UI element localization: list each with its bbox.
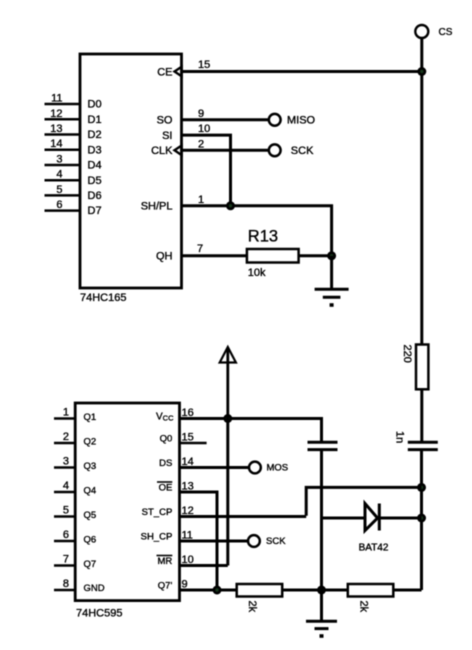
- svg-text:GND: GND: [84, 583, 105, 594]
- pin SH/PL (1): [141, 194, 204, 213]
- pin CLK (2): [151, 138, 204, 157]
- svg-text:Q2: Q2: [84, 437, 97, 448]
- pin SH_CP (11): [141, 530, 248, 543]
- pin VCC (16): [156, 407, 194, 423]
- svg-text:Q6: Q6: [84, 535, 97, 546]
- pin CE (15): [157, 59, 210, 78]
- IC U1 74HC165 body: [80, 54, 182, 304]
- port CS: [415, 25, 452, 38]
- svg-text:1: 1: [198, 194, 204, 206]
- svg-text:Q7': Q7': [158, 581, 173, 592]
- port MISO: [269, 114, 316, 127]
- svg-text:Q3: Q3: [84, 461, 97, 472]
- pin Q7 (7): [54, 554, 96, 571]
- junction SI/SH-PL: [226, 201, 235, 210]
- pin D3 (14): [45, 138, 102, 156]
- arrowhead CLK input: [175, 146, 182, 156]
- pin Q6 (6): [54, 529, 96, 546]
- svg-text:11: 11: [51, 93, 62, 105]
- svg-text:Q7: Q7: [84, 559, 97, 570]
- svg-text:74HC595: 74HC595: [76, 608, 122, 620]
- capacitor (VCC decoupling): [308, 442, 338, 449]
- wire right 2k to right vertical: [393, 589, 421, 592]
- wire VCC to cap: [180, 419, 322, 443]
- svg-text:8: 8: [63, 578, 69, 590]
- svg-text:D2: D2: [88, 129, 102, 141]
- wire ST_CP step to right vertical: [306, 487, 421, 515]
- capacitor 1n: [394, 431, 438, 450]
- pin Q3 (3): [54, 456, 96, 473]
- pin D7 (6): [45, 199, 102, 217]
- svg-text:D1: D1: [88, 114, 102, 126]
- svg-text:5: 5: [56, 184, 62, 196]
- pin ST_CP (12): [142, 505, 307, 518]
- svg-text:1n: 1n: [394, 431, 406, 443]
- svg-text:D5: D5: [88, 175, 102, 187]
- svg-text:7: 7: [197, 243, 203, 255]
- diode BAT42: [322, 504, 422, 554]
- junction VCC arrow: [223, 414, 232, 423]
- svg-text:2: 2: [63, 431, 69, 443]
- svg-text:D3: D3: [88, 144, 102, 156]
- wire down to ground: [330, 256, 333, 289]
- svg-text:MISO: MISO: [287, 115, 316, 127]
- svg-text:9: 9: [198, 108, 204, 120]
- pin Q7' (9): [158, 579, 237, 592]
- svg-text:SO: SO: [157, 115, 173, 127]
- svg-text:15: 15: [198, 59, 210, 71]
- resistor 2k (right): [348, 584, 394, 613]
- svg-text:12: 12: [50, 108, 62, 120]
- wire OE down to Q7': [180, 492, 218, 590]
- pin Q5 (5): [54, 505, 96, 522]
- wire MR to VCC vertical: [180, 419, 228, 566]
- pin QH (7): [156, 243, 203, 263]
- svg-text:QH: QH: [156, 251, 173, 263]
- pin MR (10): [157, 554, 194, 567]
- svg-text:7: 7: [63, 554, 69, 566]
- svg-text:13: 13: [50, 123, 62, 135]
- svg-text:3: 3: [56, 154, 62, 166]
- svg-text:SH_CP: SH_CP: [141, 532, 173, 543]
- pin SO (9): [157, 108, 205, 127]
- wire 220 to cap 1n: [420, 389, 423, 442]
- svg-text:D7: D7: [88, 205, 102, 217]
- svg-text:D6: D6: [88, 190, 102, 202]
- pin Q1 (1): [54, 407, 96, 424]
- pin D2 (13): [45, 123, 102, 141]
- svg-text:D4: D4: [88, 160, 102, 172]
- svg-text:CLK: CLK: [151, 145, 173, 157]
- svg-text:ST_CP: ST_CP: [142, 507, 173, 518]
- resistor 220: [401, 345, 428, 390]
- svg-text:MOS: MOS: [267, 463, 289, 474]
- svg-text:220: 220: [401, 345, 413, 363]
- resistor 2k (left): [237, 584, 283, 613]
- svg-text:5: 5: [63, 505, 69, 517]
- svg-text:SI: SI: [162, 130, 172, 142]
- arrowhead CE input: [175, 67, 182, 77]
- svg-text:Q5: Q5: [84, 510, 97, 521]
- wire CE to CS node: [182, 70, 422, 73]
- junction OE/Q7': [213, 586, 222, 595]
- svg-text:74HC165: 74HC165: [80, 292, 126, 304]
- svg-text:3: 3: [63, 456, 69, 468]
- pin SI (10): [162, 123, 210, 142]
- svg-text:D0: D0: [88, 99, 102, 111]
- junction CS/CE: [417, 67, 426, 76]
- svg-text:SH/PL: SH/PL: [141, 201, 173, 213]
- svg-text:DS: DS: [159, 458, 172, 469]
- svg-text:CS: CS: [439, 27, 453, 38]
- pin Q0 (15): [160, 432, 207, 445]
- port SCK (upper): [269, 144, 314, 157]
- resistor R13 10k: [247, 227, 299, 279]
- svg-text:2k: 2k: [246, 601, 258, 613]
- svg-text:Q1: Q1: [84, 412, 97, 423]
- svg-text:OE: OE: [159, 483, 173, 494]
- pin D1 (12): [45, 108, 102, 126]
- svg-text:10: 10: [198, 123, 210, 135]
- junction diode/vertical: [417, 514, 426, 523]
- supply VCC arrow: [220, 347, 236, 419]
- svg-text:2k: 2k: [357, 601, 369, 613]
- junction R13/SH-PL/ground: [327, 251, 336, 260]
- pin Q4 (4): [54, 480, 96, 497]
- wire left 2k to gnd node: [282, 589, 348, 592]
- svg-text:Q0: Q0: [160, 434, 173, 445]
- svg-text:4: 4: [63, 480, 69, 492]
- IC U2 74HC595 body: [75, 403, 179, 620]
- pin D4 (3): [45, 154, 102, 172]
- ground (bottom section): [306, 621, 337, 638]
- svg-text:BAT42: BAT42: [359, 542, 389, 553]
- wire 1n down: [420, 450, 423, 590]
- svg-text:CE: CE: [157, 66, 172, 78]
- wire R13 to ground node: [299, 254, 332, 257]
- junction GND node: [317, 586, 326, 595]
- pin D5 (4): [45, 169, 102, 187]
- port SCK (lower): [248, 535, 286, 547]
- pin OE (13): [157, 481, 194, 494]
- junction cap/ST_CP link: [417, 483, 426, 492]
- wire SH/PL right and down: [182, 206, 332, 256]
- svg-text:MR: MR: [158, 556, 173, 567]
- pin Q2 (2): [54, 431, 96, 448]
- wire CLK to SCK: [182, 149, 270, 152]
- svg-text:R13: R13: [248, 227, 278, 245]
- pin GND (8): [54, 578, 105, 594]
- ground (top section): [315, 289, 349, 307]
- wire QH to R13: [182, 254, 247, 257]
- svg-text:Q4: Q4: [84, 486, 97, 497]
- svg-text:10k: 10k: [248, 267, 266, 279]
- pin D0 (11): [45, 93, 102, 111]
- wire cap to gnd: [320, 450, 323, 621]
- wire SI down to SH/PL: [182, 135, 231, 206]
- port MOS: [249, 462, 288, 474]
- svg-text:SCK: SCK: [291, 145, 314, 157]
- svg-text:6: 6: [63, 529, 69, 541]
- svg-text:14: 14: [50, 138, 62, 150]
- svg-text:4: 4: [56, 169, 62, 181]
- svg-text:1: 1: [63, 407, 69, 419]
- wire CS down: [420, 38, 423, 345]
- svg-text:VCC: VCC: [156, 412, 174, 423]
- pin DS (14): [159, 456, 249, 469]
- svg-text:SCK: SCK: [266, 536, 286, 547]
- svg-text:6: 6: [56, 199, 62, 211]
- pin D6 (5): [45, 184, 102, 202]
- svg-text:2: 2: [198, 138, 204, 150]
- wire SO to MISO: [182, 118, 270, 121]
